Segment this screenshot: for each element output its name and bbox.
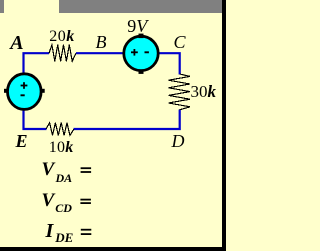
window chrome: grey corner block: [0, 0, 4, 13]
node E: [16, 132, 28, 150]
equation 3 equals sign: [81, 229, 92, 235]
voltage source V2 top terminal nub: [139, 34, 144, 39]
resistor 20k zigzag: [49, 45, 76, 61]
wire C corner (top-right): [159, 53, 180, 74]
value label 20k: [49, 29, 75, 45]
resistor 10k zigzag: [46, 123, 74, 136]
node A: [10, 33, 23, 53]
window chrome: black bottom border: [0, 247, 226, 251]
node D: [172, 132, 185, 150]
wire top middle (resistor to source): [76, 52, 124, 54]
voltage source V2 plus sign: [131, 49, 138, 56]
wire E corner (bottom-left): [24, 109, 47, 129]
voltage source V2 bottom terminal nub: [139, 69, 144, 74]
window chrome: black right border: [222, 0, 226, 251]
resistor 30k zigzag: [169, 74, 191, 110]
equation 2: V_CD: [42, 191, 55, 210]
equation 1: V_DA: [42, 160, 55, 179]
voltage source V1 left terminal nub: [4, 89, 9, 93]
node B: [96, 33, 107, 51]
voltage source V1 plus sign: [21, 82, 28, 89]
equation 3: I_DE: [46, 221, 54, 241]
equation 2 equals sign: [80, 199, 91, 204]
value label 30k: [191, 83, 217, 100]
voltage source V1 right terminal nub: [40, 89, 45, 93]
voltage source V1 (left) circle: [8, 74, 42, 110]
voltage source V2 (9V top) circle: [124, 36, 158, 70]
node C: [174, 33, 186, 51]
voltage source V2 minus sign: [145, 51, 149, 53]
wire A corner (top-left): [24, 53, 50, 73]
equation 1 equals sign: [81, 167, 92, 173]
wire D corner (bottom-right): [74, 110, 180, 130]
window chrome: grey top bar: [59, 0, 222, 13]
value label 10k: [49, 140, 74, 156]
value label 9V: [127, 17, 147, 35]
voltage source V1 minus sign: [21, 94, 25, 96]
